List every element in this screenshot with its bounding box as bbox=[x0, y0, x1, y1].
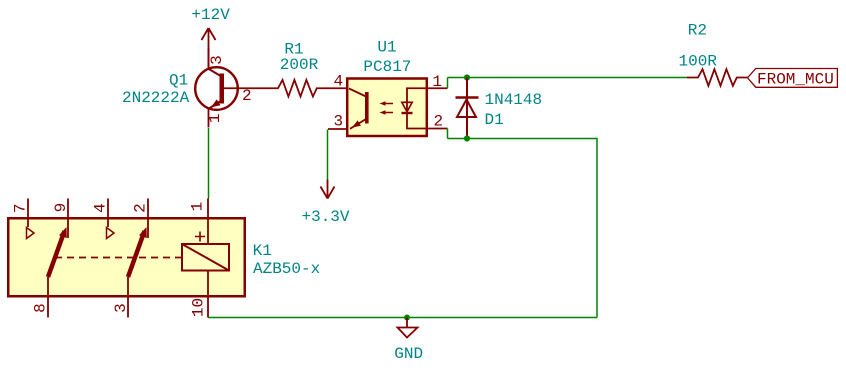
svg-text:7: 7 bbox=[11, 203, 29, 213]
svg-text:+12V: +12V bbox=[191, 6, 230, 24]
svg-text:3: 3 bbox=[208, 55, 226, 65]
relay coil bbox=[182, 244, 229, 271]
svg-text:2: 2 bbox=[434, 113, 444, 131]
junction GND bbox=[404, 315, 410, 321]
relay switch armature A bbox=[48, 227, 67, 277]
svg-text:1N4148: 1N4148 bbox=[485, 91, 543, 109]
svg-text:9: 9 bbox=[52, 203, 70, 213]
resistor R2 bbox=[687, 69, 748, 86]
wire bottom rail bbox=[208, 317, 597, 319]
hierarchical label FROM_MCU bbox=[748, 69, 838, 89]
relay pin 4 NC marker bbox=[107, 228, 115, 239]
svg-text:Q1: Q1 bbox=[169, 72, 188, 90]
svg-text:100R: 100R bbox=[679, 52, 718, 70]
U1 pin3 lead bbox=[328, 128, 346, 130]
svg-text:2N2222A: 2N2222A bbox=[122, 89, 190, 107]
svg-text:R2: R2 bbox=[688, 22, 707, 40]
U1 internal LED bbox=[402, 88, 427, 128]
relay pin 7 NC marker bbox=[27, 228, 35, 239]
transistor Q1 bbox=[195, 48, 248, 128]
wire U1 pin3 down bbox=[327, 130, 329, 180]
svg-text:2: 2 bbox=[132, 203, 150, 213]
U1 light arrows bbox=[380, 101, 394, 114]
relay pin 8 bbox=[47, 277, 49, 318]
ground symbol bbox=[394, 318, 423, 364]
svg-text:3: 3 bbox=[334, 113, 344, 131]
power +12V bbox=[191, 6, 230, 67]
wire U1 pin1 jog bbox=[447, 78, 449, 89]
relay pin 7 bbox=[27, 199, 29, 228]
relay pin 9 bbox=[67, 199, 69, 239]
wire Q1 emitter to relay bbox=[208, 128, 210, 199]
relay coil + polarity mark bbox=[195, 232, 205, 242]
U1 pin1 lead bbox=[428, 87, 448, 89]
power +3.3V bbox=[301, 180, 349, 227]
svg-text:3: 3 bbox=[112, 303, 130, 313]
svg-text:4: 4 bbox=[92, 203, 110, 213]
svg-text:K1: K1 bbox=[253, 242, 272, 260]
relay pin 3 bbox=[127, 277, 129, 318]
relay dashed actuator line bbox=[55, 257, 181, 259]
svg-text:2: 2 bbox=[242, 87, 252, 105]
relay pin 10 bbox=[207, 271, 209, 318]
svg-text:PC817: PC817 bbox=[363, 58, 411, 76]
svg-text:GND: GND bbox=[394, 345, 423, 363]
svg-text:1: 1 bbox=[206, 113, 224, 123]
svg-text:U1: U1 bbox=[377, 38, 396, 56]
svg-text:FROM_MCU: FROM_MCU bbox=[757, 71, 834, 89]
relay pin 1 bbox=[207, 199, 209, 245]
relay pin 2 bbox=[147, 199, 149, 239]
svg-text:1: 1 bbox=[189, 202, 207, 212]
wire bottom rail to riser bbox=[448, 139, 598, 318]
svg-text:D1: D1 bbox=[485, 111, 504, 129]
svg-text:200R: 200R bbox=[280, 56, 319, 74]
svg-text:AZB50-x: AZB50-x bbox=[253, 260, 320, 278]
wire U1 pin2 jog bbox=[447, 129, 449, 139]
svg-text:1: 1 bbox=[432, 73, 442, 91]
svg-text:4: 4 bbox=[334, 72, 344, 90]
wire top rail bbox=[448, 77, 688, 79]
relay pin 4 bbox=[107, 199, 109, 228]
svg-text:10: 10 bbox=[190, 298, 208, 317]
U1 pin2 lead bbox=[428, 128, 448, 130]
relay switch armature B bbox=[128, 227, 147, 277]
junction top bbox=[464, 74, 470, 80]
relay K1 body bbox=[8, 218, 245, 296]
diode D1 bbox=[456, 78, 479, 139]
svg-text:8: 8 bbox=[32, 303, 50, 313]
optocoupler U1 body bbox=[347, 79, 427, 137]
resistor R1 bbox=[248, 80, 346, 97]
svg-text:+3.3V: +3.3V bbox=[301, 208, 349, 226]
U1 phototransistor bbox=[349, 89, 369, 129]
junction bottom bbox=[464, 135, 470, 141]
